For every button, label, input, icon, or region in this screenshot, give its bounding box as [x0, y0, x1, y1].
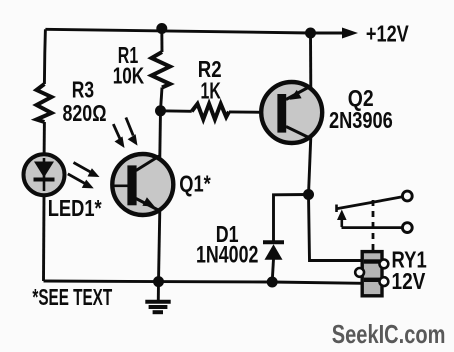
wire node to D1 top: [274, 195, 309, 243]
wire left vertical top (rail to R3): [44, 29, 45, 84]
wire node to R2: [161, 109, 192, 112]
wire Q1 emitter to ground node: [159, 210, 160, 282]
junction dot at Q2 collector node: [303, 189, 314, 200]
junction dot at ground node: [153, 276, 164, 287]
svg-text:10K: 10K: [113, 62, 145, 88]
svg-text:820Ω: 820Ω: [63, 100, 107, 126]
svg-text:2N3906: 2N3906: [329, 107, 393, 133]
wire node down to relay: [309, 195, 363, 261]
wire LED1 to bottom rail: [42, 195, 45, 281]
svg-text:*SEE TEXT: *SEE TEXT: [32, 284, 112, 310]
relay switch motion arrow: [337, 210, 347, 228]
svg-text:1N4002: 1N4002: [196, 242, 258, 269]
wire node to Q1 collector: [158, 111, 162, 159]
junction dot at R1 top: [156, 23, 167, 34]
svg-text:LED1*: LED1*: [48, 195, 102, 221]
svg-text:1K: 1K: [201, 78, 222, 104]
junction dot at R1 bottom: [155, 105, 166, 116]
wire Q2 top vertical: [309, 33, 312, 88]
transistor Q2: [261, 82, 322, 143]
wire top rail: [45, 29, 344, 33]
resistor R1: [152, 52, 171, 88]
relay mechanical dashed link: [372, 200, 375, 244]
wire R3 to LED1: [43, 122, 46, 156]
svg-text:SeekIC.com: SeekIC.com: [332, 319, 446, 349]
wire R2 to Q2 base: [229, 110, 278, 113]
svg-text:12V: 12V: [392, 268, 426, 294]
wire R1 top: [160, 28, 163, 52]
relay coil RY1: [355, 244, 388, 296]
relay switch lever: [337, 197, 403, 209]
light arrows into Q1 (upper pair): [113, 118, 137, 149]
wire bottom rail: [44, 281, 363, 283]
wire D1 to bottom rail: [272, 259, 273, 282]
relay switch lever end tick: [335, 205, 338, 213]
phototransistor Q1: [112, 154, 173, 215]
relay switch lower contact wire: [342, 226, 403, 229]
junction dot at Q2 top: [305, 28, 316, 39]
svg-text:Q1*: Q1*: [179, 170, 211, 196]
ground: [145, 282, 170, 313]
relay switch NC contact: [402, 223, 412, 233]
resistor R2: [192, 104, 229, 120]
light arrows from LED1 (lower pair): [68, 163, 100, 189]
resistor R3: [37, 84, 52, 122]
wire Q2 collector down: [309, 137, 311, 195]
LED LED1: [24, 154, 65, 195]
diode D1: [263, 242, 284, 259]
svg-text:+12V: +12V: [366, 20, 409, 46]
+12V arrowhead: [342, 28, 358, 39]
wire R1 bottom to node: [161, 88, 163, 111]
junction dot at D1 bottom: [267, 277, 278, 288]
svg-text:R3: R3: [72, 77, 94, 103]
relay switch NO contact: [402, 191, 412, 201]
